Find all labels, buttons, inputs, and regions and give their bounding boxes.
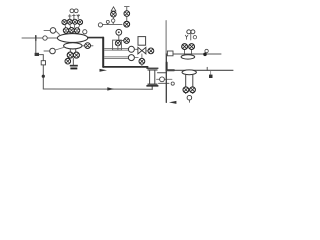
vessel E3 ellipse below pipe1 bbox=[181, 55, 195, 59]
wire filter top to vertical F bbox=[158, 72, 167, 74]
valve Y tick bbox=[185, 35, 188, 39]
valve solid square below pipe2 bbox=[210, 70, 212, 74]
instrument bubble C1 left-top bbox=[44, 29, 50, 31]
instrument X-bubble L2 bbox=[124, 11, 130, 17]
vessel E2 lower ellipse bbox=[64, 43, 82, 49]
pipe elbow F to pipe2 bbox=[167, 63, 174, 71]
arrow on discharge line bbox=[169, 101, 177, 104]
instrument X-bubble below valve bbox=[141, 54, 143, 58]
wire top right header bbox=[167, 20, 235, 22]
vessel legs bbox=[186, 75, 193, 94]
signal row 1 with bubble bbox=[105, 49, 129, 51]
instrument tiny bubble bbox=[193, 36, 196, 39]
instrument X-bubble lower-left bbox=[65, 58, 71, 64]
wire tick bbox=[190, 34, 192, 40]
wire filter bottom to vertical F bbox=[159, 82, 170, 84]
valve solid blob at elbow bbox=[35, 53, 39, 56]
instrument row of three X-bubbles on E1 bbox=[63, 28, 68, 33]
arrow flow on line C bbox=[107, 87, 114, 90]
node junction dot bbox=[42, 75, 45, 78]
pipe exit from E1 to corner bbox=[88, 37, 103, 39]
wire drop line B bbox=[36, 38, 44, 89]
instrument bubble with X right of E2 bbox=[82, 45, 93, 47]
instrument X-bubble mid bbox=[124, 38, 130, 44]
wire main inlet pipe A bbox=[22, 37, 59, 39]
vessel E4 top ellipse bbox=[182, 70, 196, 75]
instrument bubble C3 left-bottom bbox=[44, 50, 50, 52]
valve tick up on pipe2 bbox=[206, 67, 208, 70]
instrument X-bubble L2 lower bbox=[124, 21, 130, 27]
wire stem to line C bbox=[151, 87, 153, 90]
flange top bars of filter pipe bbox=[146, 68, 158, 69]
valve blob on pipe1 right bbox=[203, 53, 207, 57]
arrow flow under pipe E bbox=[100, 69, 108, 72]
pipe1 right section bbox=[167, 53, 221, 55]
wire header line L bbox=[103, 24, 122, 26]
instrument bubble C2 on pipe A bbox=[43, 36, 47, 40]
signal row 2 with bubble bbox=[105, 57, 129, 59]
instrument X-bubble pair on legs bbox=[183, 87, 189, 93]
instrument tiny bubble L1 bbox=[112, 19, 115, 22]
instrument X-bubble L1 bbox=[111, 11, 117, 17]
wire stems between rows bbox=[65, 24, 80, 28]
instrument bubble on mid line bbox=[160, 77, 165, 82]
wire stem from dot bubble bbox=[119, 35, 124, 40]
wire center leg bbox=[72, 58, 74, 64]
flange bottom bars bbox=[148, 84, 158, 85]
pipe vertical D bbox=[102, 38, 104, 67]
instrument X-bubble pair above pipe1 bbox=[185, 49, 192, 54]
valve V1 tick on pipe A bbox=[35, 36, 37, 41]
valve square on pipe1 bbox=[167, 51, 173, 56]
instrument row of four X-bubbles bbox=[62, 20, 67, 25]
instrument bubble left end of L bbox=[98, 23, 102, 27]
valve L2 top tick bbox=[124, 7, 129, 11]
wire L2 stem bbox=[126, 16, 128, 21]
instrument bubble small at E1 right shoulder bbox=[83, 30, 87, 34]
wire legs below E2 bbox=[70, 49, 75, 53]
relief valve L1 triangle bbox=[111, 7, 116, 11]
instrument bubble with dot bbox=[116, 29, 122, 35]
wire bottom right discharge line bbox=[166, 101, 235, 103]
wire L1 stem bbox=[112, 17, 114, 19]
flange bars bottom of central stack bbox=[70, 65, 78, 67]
pipe vertical F bbox=[165, 21, 167, 54]
instrument tiny bubble above L bbox=[107, 23, 109, 24]
instrument tiny pair top right bbox=[187, 30, 191, 34]
instrument X-bubble right of valve bbox=[146, 50, 148, 52]
instrument bubble vessel bottom bbox=[187, 95, 192, 100]
valve square SV on drop line bbox=[41, 61, 45, 65]
wire mid line with bubble bbox=[157, 78, 173, 80]
control valve bowtie bbox=[138, 47, 146, 54]
vessel E1 main ellipse bbox=[57, 34, 87, 43]
pipe2 right section bbox=[167, 69, 233, 71]
valve actuator ticks bbox=[68, 15, 71, 19]
pipe horizontal E bbox=[103, 66, 147, 68]
instrument tiny bubble above blob bbox=[205, 49, 208, 52]
instrument tiny bubble right of F bbox=[171, 82, 174, 85]
pipe filter body walls bbox=[150, 71, 155, 84]
wire long bottom line C bbox=[43, 88, 152, 90]
box R1 with X-bubble bbox=[113, 40, 122, 50]
actuator cylinder rect bbox=[138, 37, 146, 46]
instrument X-bubble pair below E2 bbox=[67, 52, 73, 58]
instrument bubbles tiny pair top of stack bbox=[70, 9, 74, 13]
